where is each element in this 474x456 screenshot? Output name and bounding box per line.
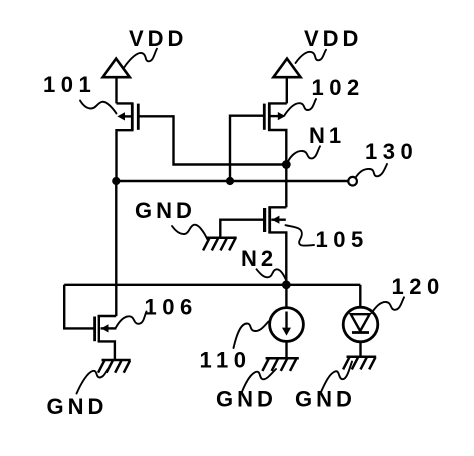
svg-text:GND: GND xyxy=(47,394,108,419)
node junction dot left (116,181) xyxy=(112,177,120,185)
leader line 101 xyxy=(80,101,117,114)
ground symbol middle xyxy=(203,238,237,251)
svg-text:106: 106 xyxy=(145,295,198,320)
leader line 110 xyxy=(234,322,269,349)
node N1 dot xyxy=(282,160,291,169)
leader line 120 xyxy=(372,297,405,313)
svg-text:N1: N1 xyxy=(309,123,345,148)
transistor 106 (NMOS) xyxy=(95,316,117,360)
svg-text:110: 110 xyxy=(200,348,252,373)
leader line N1 xyxy=(288,146,320,161)
node junction dot (230,181) xyxy=(226,177,234,185)
transistor 101 (PMOS) xyxy=(117,103,139,181)
svg-text:VDD: VDD xyxy=(304,26,362,51)
svg-text:GND: GND xyxy=(135,198,196,223)
leader line GND bottom right xyxy=(321,362,352,393)
svg-text:GND: GND xyxy=(295,387,356,412)
node N2 dot xyxy=(282,280,291,289)
wire left column x=116 from dot down to 106 drain xyxy=(115,181,117,316)
leader line 105 xyxy=(286,225,315,245)
power VDD symbol left xyxy=(103,59,130,104)
leader line GND bottom left xyxy=(77,369,109,394)
current source 110 xyxy=(270,285,304,358)
leader line 130 xyxy=(356,164,388,178)
svg-text:VDD: VDD xyxy=(129,26,187,51)
power VDD symbol right xyxy=(273,59,300,104)
svg-text:GND: GND xyxy=(216,387,277,412)
svg-text:105: 105 xyxy=(316,227,369,252)
transistor 102 (PMOS) xyxy=(264,103,287,165)
svg-text:120: 120 xyxy=(392,274,445,299)
ground symbol under 110 xyxy=(262,358,298,371)
wire node N2 row xyxy=(64,284,360,286)
wire gate 102 to node at 230,181 xyxy=(230,116,263,181)
wire N1 down to transistor 105 xyxy=(285,165,287,208)
terminal 130 open circle xyxy=(348,177,357,186)
diode 120 xyxy=(343,285,378,357)
ground symbol under 106 xyxy=(98,360,131,373)
leader line N2 xyxy=(257,269,287,281)
ground symbol under 120 xyxy=(343,357,376,370)
svg-text:N2: N2 xyxy=(241,246,277,271)
transistor 105 (NMOS) xyxy=(265,207,287,285)
wire output row y=181 xyxy=(116,180,348,182)
leader line GND bottom middle xyxy=(242,369,277,393)
leader line VDD right xyxy=(296,50,327,63)
svg-text:102: 102 xyxy=(312,75,365,100)
leader line 102 xyxy=(285,99,317,115)
leader line 106 xyxy=(116,312,147,329)
svg-text:101: 101 xyxy=(43,72,96,97)
leader line GND middle xyxy=(172,225,208,240)
leader line VDD left xyxy=(125,49,158,67)
wire gate 101 to node N1 xyxy=(139,116,286,164)
wire gate 105 to ground xyxy=(220,220,263,237)
svg-text:130: 130 xyxy=(365,139,418,164)
wire gate 106 loop to N2 row xyxy=(64,285,94,329)
